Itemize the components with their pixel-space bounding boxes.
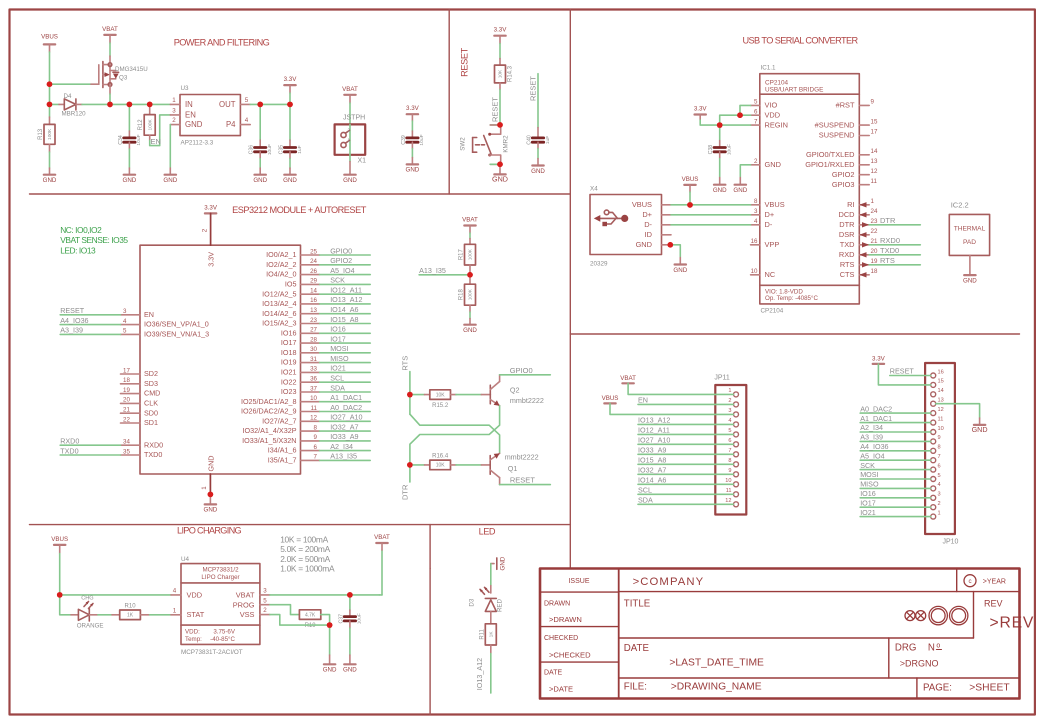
section divider vertical center — [569, 10, 571, 569]
svg-text:14: 14 — [310, 288, 317, 295]
svg-text:4: 4 — [754, 218, 758, 225]
svg-text:VBUS: VBUS — [602, 395, 619, 402]
wire JP10 pin15 — [878, 364, 930, 385]
svg-text:5.0K = 200mA: 5.0K = 200mA — [280, 544, 330, 554]
wire gate to VBUS — [50, 83, 92, 85]
IC U4 MCP73831 — [181, 556, 260, 656]
svg-text:TXD0: TXD0 — [880, 246, 899, 255]
svg-text:MOSI: MOSI — [330, 344, 348, 353]
connector JP10 — [925, 363, 958, 546]
svg-text:10K: 10K — [436, 392, 446, 398]
wire net IO32_A7 — [320, 422, 371, 431]
svg-text:4: 4 — [728, 418, 731, 424]
pin ESP.33 IO21 — [281, 366, 320, 377]
svg-text:GPIO0/TXLED: GPIO0/TXLED — [806, 150, 854, 159]
svg-text:EN: EN — [151, 137, 161, 146]
ground IC2.2 — [963, 275, 977, 284]
capacitor C40 — [526, 135, 550, 145]
svg-text:o: o — [936, 643, 940, 650]
wire net IO12_A11 — [320, 286, 371, 295]
svg-text:1: 1 — [728, 388, 731, 394]
svg-text:GPIO2: GPIO2 — [330, 256, 352, 265]
svg-text:DCD: DCD — [838, 210, 854, 219]
svg-text:RESET: RESET — [460, 47, 470, 76]
wire EN net loop — [150, 115, 171, 146]
svg-text:3: 3 — [263, 588, 267, 595]
svg-text:RESET: RESET — [529, 76, 538, 101]
wire net RESET — [60, 306, 120, 315]
pin JP10.16 — [931, 369, 944, 378]
svg-text:A4_IO36: A4_IO36 — [860, 442, 888, 451]
svg-text:A1_DAC1: A1_DAC1 — [330, 393, 362, 402]
svg-text:IO21: IO21 — [860, 508, 876, 517]
pin ESP.37 IO23 — [281, 385, 320, 396]
power 3.3V CP2104 — [694, 106, 708, 115]
node VSS junction — [327, 622, 333, 628]
pin JP10.2 — [931, 501, 941, 510]
capacitor C34 — [118, 134, 142, 145]
svg-text:P4: P4 — [226, 120, 236, 129]
svg-text:JSTPH: JSTPH — [343, 115, 365, 122]
svg-text:2: 2 — [263, 607, 267, 614]
svg-text:12: 12 — [871, 168, 878, 175]
pin ESP.12 IO27/A2_7 — [262, 415, 319, 426]
connector X4 USB — [590, 185, 662, 267]
svg-text:35: 35 — [123, 448, 130, 455]
svg-text:C36: C36 — [249, 145, 255, 155]
node REGIN junction — [717, 122, 723, 128]
svg-text:CLK: CLK — [144, 399, 158, 408]
svg-text:2: 2 — [172, 117, 176, 124]
svg-text:I35/A1_7: I35/A1_7 — [268, 456, 297, 465]
svg-text:3.3V: 3.3V — [204, 204, 218, 211]
svg-text:36: 36 — [310, 376, 317, 383]
svg-text:ESP3212 MODULE + AUTORESET: ESP3212 MODULE + AUTORESET — [232, 205, 367, 215]
svg-text:GPIO3: GPIO3 — [832, 180, 855, 189]
svg-text:GND: GND — [733, 187, 747, 194]
pin JP11.12 — [725, 498, 738, 507]
resistor R13 — [38, 124, 55, 144]
svg-text:6: 6 — [754, 108, 758, 115]
svg-text:IO23: IO23 — [281, 387, 297, 396]
pin JP10.13 — [931, 398, 944, 407]
svg-text:10: 10 — [938, 426, 944, 432]
wire net IO13_A12 — [320, 295, 371, 304]
pin JP10.7 — [931, 454, 941, 463]
note resistor values — [280, 534, 335, 573]
svg-text:GND: GND — [765, 160, 781, 169]
svg-text:GND: GND — [492, 175, 508, 184]
svg-text:Q3: Q3 — [119, 75, 128, 82]
capacitor C35 — [278, 145, 302, 155]
section divider vertical power/reset — [448, 10, 450, 195]
wire net DTR (CP2104) — [869, 216, 920, 225]
power VBUS X4 — [682, 176, 699, 185]
svg-text:EN: EN — [638, 396, 648, 405]
capacitor C36 — [249, 144, 273, 155]
svg-text:RI: RI — [847, 200, 854, 209]
svg-text:SD3: SD3 — [144, 379, 158, 388]
svg-text:8: 8 — [754, 198, 758, 205]
svg-text:7: 7 — [754, 118, 758, 125]
svg-text:MCP73831/2: MCP73831/2 — [202, 566, 239, 573]
svg-text:IO26/DAC2/A2_9: IO26/DAC2/A2_9 — [241, 407, 297, 416]
svg-text:27: 27 — [310, 327, 317, 334]
svg-text:D-: D- — [765, 220, 773, 229]
wire VBUS row — [671, 204, 751, 206]
svg-text:GND: GND — [283, 177, 297, 184]
pin IC1.13 GPIO1/RXLED — [805, 158, 878, 169]
svg-text:C40: C40 — [526, 135, 532, 145]
svg-text:IO27_A10: IO27_A10 — [330, 413, 362, 422]
pin ESP.23 IO15/A2_3 — [262, 317, 319, 328]
svg-text:THERMAL: THERMAL — [954, 225, 986, 232]
pin IC1.7 REGIN — [751, 118, 788, 129]
capacitor C39 — [401, 134, 425, 145]
svg-text:A4_IO36: A4_IO36 — [60, 316, 88, 325]
svg-text:5: 5 — [263, 597, 267, 604]
pin ESP.2 top — [210, 213, 212, 245]
svg-text:N: N — [928, 643, 935, 654]
wire net A4_IO36 — [60, 316, 120, 325]
transistor Q2 mmbt2222 — [490, 375, 544, 406]
capacitor C38 — [719, 125, 721, 140]
svg-text:6: 6 — [938, 463, 941, 469]
svg-text:GPIO2: GPIO2 — [832, 170, 855, 179]
wire 3.3V to REGIN — [699, 115, 701, 121]
svg-text:IC2.2: IC2.2 — [951, 201, 969, 210]
wire D- row — [671, 224, 751, 226]
svg-text:10uF: 10uF — [136, 134, 142, 145]
wire net A4_IO36 (JP10) — [860, 442, 931, 451]
svg-text:R13: R13 — [38, 128, 44, 140]
pin JP11.5 — [728, 428, 738, 437]
wire net IO33_A9 — [320, 432, 371, 441]
wire net IO33_A9 (JP11) — [638, 446, 733, 455]
svg-text:ISSUE: ISSUE — [568, 578, 589, 585]
svg-text:VPP: VPP — [765, 240, 780, 249]
op-amp U3 AP2112-3.3 regulator — [180, 85, 240, 147]
wire VIO/VDD chain — [720, 105, 751, 125]
svg-text:4.7K: 4.7K — [305, 612, 316, 618]
svg-text:10uF: 10uF — [357, 613, 363, 624]
wire U3 GND pin down — [169, 125, 171, 168]
pin ESP.9 IO33/A1_5/X32N — [242, 434, 319, 445]
title block — [540, 569, 1020, 699]
wire net SCK — [320, 276, 371, 285]
switch SW2 KMR2 — [460, 125, 510, 164]
pin IC1.4 D- — [751, 218, 773, 229]
wire X4 GND — [668, 242, 674, 248]
svg-text:SD0: SD0 — [144, 408, 158, 417]
svg-text:DRAWN: DRAWN — [544, 600, 570, 607]
svg-text:D+: D+ — [765, 210, 775, 219]
svg-text:100K: 100K — [468, 248, 474, 260]
svg-text:GND: GND — [963, 277, 977, 284]
svg-text:RESET: RESET — [491, 97, 500, 122]
resistor R19 — [299, 610, 320, 629]
svg-text:16: 16 — [751, 238, 758, 245]
svg-text:SW2: SW2 — [460, 137, 467, 151]
svg-text:C38: C38 — [708, 145, 714, 155]
pin X4 GND — [662, 244, 670, 246]
svg-text:3.3V: 3.3V — [494, 27, 508, 34]
svg-text:>SHEET: >SHEET — [969, 683, 1010, 694]
svg-text:A1_DAC1: A1_DAC1 — [860, 414, 892, 423]
wire net GPIO0 — [500, 366, 551, 375]
section divider horizontal right — [570, 333, 1019, 335]
svg-text:GND: GND — [43, 177, 57, 184]
svg-text:6: 6 — [728, 438, 731, 444]
svg-text:c: c — [968, 578, 971, 585]
svg-text:28: 28 — [310, 336, 317, 343]
wire D+ row — [671, 214, 751, 216]
svg-text:8: 8 — [938, 445, 941, 451]
pin ESP.8 IO32/A1_4/X32P — [243, 424, 320, 435]
wire net SCL — [320, 374, 371, 383]
svg-text:IO33_A9: IO33_A9 — [330, 432, 358, 441]
pin JP10.14 — [931, 388, 944, 397]
svg-text:33: 33 — [310, 366, 317, 373]
wire RESET to C40 — [537, 74, 539, 128]
wire net IO15_A8 — [320, 315, 371, 324]
svg-text:3.3V: 3.3V — [694, 106, 708, 113]
svg-text:C37: C37 — [338, 614, 344, 624]
svg-text:CTS: CTS — [840, 270, 855, 279]
section divider vertical led/titleblock — [429, 569, 431, 715]
svg-text:2: 2 — [202, 228, 209, 232]
wire VSS down — [270, 615, 330, 626]
wire LED top — [491, 563, 494, 565]
svg-text:GND: GND — [323, 667, 337, 674]
svg-text:VBAT: VBAT — [620, 375, 636, 382]
svg-text:DTR: DTR — [880, 216, 896, 225]
svg-text:DTR: DTR — [839, 220, 854, 229]
pin ESP.7 I35/A1_7 — [268, 454, 320, 465]
svg-text:2: 2 — [348, 128, 351, 133]
svg-text:2: 2 — [938, 501, 941, 507]
svg-text:PROG: PROG — [233, 600, 255, 609]
svg-text:VBAT: VBAT — [374, 534, 390, 541]
capacitor C38 — [708, 144, 732, 155]
svg-text:10K: 10K — [436, 463, 446, 469]
svg-text:R10: R10 — [125, 604, 137, 610]
pin IC1.1 RI — [847, 198, 874, 209]
svg-text:MOSI: MOSI — [860, 470, 878, 479]
svg-text:JP11: JP11 — [714, 375, 730, 382]
wire net RXD0 (CP2104) — [869, 236, 920, 245]
svg-text:IO13_A12: IO13_A12 — [475, 658, 484, 690]
svg-text:>COMPANY: >COMPANY — [633, 576, 705, 588]
svg-text:RESET: RESET — [510, 476, 535, 485]
ground C37 — [343, 664, 357, 673]
svg-text:CHG: CHG — [81, 596, 93, 602]
pin ESP.20 CLK — [121, 397, 159, 408]
DATE row — [624, 643, 764, 668]
wire VBUS vertical — [49, 44, 51, 52]
svg-text:14: 14 — [871, 148, 878, 155]
pin JP11.10 — [725, 478, 738, 487]
svg-text:IO12_A11: IO12_A11 — [330, 286, 362, 295]
svg-text:MBR120: MBR120 — [62, 111, 87, 118]
module U5 ESP3212 box — [140, 245, 301, 474]
pin U4.4 — [171, 594, 181, 596]
DRG cell — [895, 643, 942, 669]
pin U4.2 — [260, 614, 270, 616]
svg-text:IO2/A2_2: IO2/A2_2 — [266, 260, 296, 269]
pin IC1.16 VPP — [751, 238, 780, 249]
power VBAT R17 — [462, 217, 478, 226]
pin IC1.2 GND — [751, 158, 781, 169]
svg-text:4: 4 — [123, 318, 127, 325]
pin ESP.4 IO36/SEN_VP/A1_0 — [121, 318, 209, 329]
icon USB trident — [594, 210, 629, 226]
node C36 junction — [257, 102, 263, 108]
svg-text:-40-85°C: -40-85°C — [210, 636, 235, 643]
svg-text:VSS: VSS — [240, 610, 255, 619]
pin ESP.1 bottom — [209, 474, 211, 494]
svg-text:CHECKED: CHECKED — [544, 635, 578, 642]
svg-text:R14.3: R14.3 — [508, 65, 514, 82]
svg-text:2.0K = 500mA: 2.0K = 500mA — [280, 554, 330, 564]
pin IC1.20 RXD — [839, 248, 878, 259]
svg-text:IO14_A6: IO14_A6 — [330, 305, 358, 314]
svg-text:C34: C34 — [118, 135, 124, 145]
pin U3.2 — [170, 124, 180, 126]
svg-text:34: 34 — [123, 439, 130, 446]
svg-text:23: 23 — [871, 218, 878, 225]
section divider horizontal left top — [30, 193, 571, 195]
pin JP11.11 — [726, 488, 739, 497]
svg-text:SD1: SD1 — [144, 418, 158, 427]
pin ESP.19 CMD — [121, 387, 161, 398]
svg-text:A0_DAC2: A0_DAC2 — [330, 403, 362, 412]
svg-text:VIO: VIO — [765, 101, 778, 110]
pin ESP.16 IO13/A2_4 — [262, 297, 319, 308]
svg-text:GND: GND — [207, 456, 216, 472]
wire net A5_IO4 (JP10) — [860, 451, 931, 460]
pin ESP.17 SD2 — [121, 367, 158, 378]
svg-text:1: 1 — [938, 510, 941, 516]
pin IC1.8 VBUS — [751, 198, 785, 209]
wire PROG to R19 — [270, 605, 300, 615]
pin JP11.6 — [728, 438, 738, 447]
wire net A13_I35 — [320, 452, 371, 461]
svg-text:RTS: RTS — [880, 256, 895, 265]
pin IC1.23 DTR — [839, 218, 878, 229]
node C37 junction — [347, 592, 353, 598]
svg-text:24: 24 — [871, 208, 878, 215]
svg-text:Temp:: Temp: — [185, 636, 202, 643]
svg-text:7: 7 — [938, 454, 941, 460]
node switch top junction — [497, 122, 503, 128]
IC IC2.2 thermal pad — [949, 201, 989, 256]
svg-text:5: 5 — [123, 328, 127, 335]
wire net TXD0 (CP2104) — [869, 246, 920, 255]
pin ESP.29 IO5 — [285, 278, 320, 289]
svg-text:100K: 100K — [47, 128, 53, 140]
power VBAT X1 — [342, 86, 358, 95]
power 3.3V U3 — [284, 76, 298, 85]
svg-text:PAD: PAD — [963, 239, 976, 246]
node RTS junction — [407, 392, 413, 398]
capacitor C34 — [128, 104, 130, 131]
svg-text:IO15/A2_3: IO15/A2_3 — [262, 319, 296, 328]
svg-text:10: 10 — [725, 478, 731, 484]
svg-text:R11: R11 — [479, 628, 485, 639]
svg-text:IO36/SEN_VP/A1_0: IO36/SEN_VP/A1_0 — [144, 320, 209, 329]
svg-text:JP10: JP10 — [943, 539, 959, 546]
svg-text:2: 2 — [728, 398, 731, 404]
svg-text:MCP73831T-2ACI/OT: MCP73831T-2ACI/OT — [181, 649, 243, 656]
node VBUS/diode junction — [47, 102, 53, 108]
svg-text:D-: D- — [644, 220, 652, 229]
pin JP10.12 — [931, 407, 944, 416]
wire net IO15_A8 (JP11) — [638, 456, 733, 465]
svg-text:GND: GND — [673, 267, 687, 274]
svg-text:EN: EN — [144, 310, 154, 319]
svg-text:IO17: IO17 — [330, 334, 346, 343]
resistor R12 — [149, 104, 151, 114]
ground ESP — [204, 504, 218, 513]
ground C36 — [253, 175, 267, 184]
wire net IO32_A7 (JP11) — [638, 466, 733, 475]
wire net A1_DAC1 — [320, 393, 371, 402]
pin IC1.22 DSR — [839, 228, 878, 239]
svg-text:DTR: DTR — [400, 484, 409, 500]
pin IC1.3 D+ — [751, 208, 775, 219]
svg-text:1K: 1K — [127, 613, 134, 619]
svg-text:>CHECKED: >CHECKED — [549, 651, 591, 660]
svg-text:RESET: RESET — [890, 367, 915, 376]
svg-text:GND: GND — [463, 327, 477, 334]
pin U3.4 — [240, 124, 250, 126]
svg-text:GND: GND — [123, 177, 137, 184]
wire net A1_DAC1 (JP10) — [860, 414, 931, 423]
svg-text:GND: GND — [163, 177, 177, 184]
capacitor C35 — [289, 104, 291, 140]
svg-text:15: 15 — [938, 379, 944, 385]
svg-text:IO27/A2_7: IO27/A2_7 — [262, 416, 296, 425]
resistor R17 — [459, 244, 476, 265]
wire CP2104 GND pin — [740, 165, 750, 178]
svg-text:20: 20 — [871, 248, 878, 255]
svg-text:SUSPEND: SUSPEND — [819, 131, 855, 140]
pin ESP.35 TXD0 — [121, 448, 163, 459]
svg-text:IO5: IO5 — [285, 280, 297, 289]
resistor R11 — [490, 611, 492, 623]
resistor R18 — [469, 275, 471, 284]
svg-text:IO33_A9: IO33_A9 — [638, 446, 666, 455]
svg-text:D3: D3 — [469, 598, 476, 606]
wire VBAT up — [379, 594, 382, 596]
svg-text:R15.2: R15.2 — [432, 403, 449, 409]
svg-text:>DATE: >DATE — [549, 685, 573, 694]
svg-text:19: 19 — [871, 258, 878, 265]
resistor R18 — [459, 284, 476, 305]
svg-text:3: 3 — [123, 308, 127, 315]
pin U3.3 — [170, 114, 180, 116]
svg-text:GND: GND — [204, 507, 218, 514]
ground SW2 — [492, 174, 508, 183]
svg-text:IO13_A12: IO13_A12 — [330, 295, 362, 304]
ground C34 — [123, 175, 137, 184]
svg-text:mmbt2222: mmbt2222 — [505, 453, 539, 462]
wire net IO14_A6 (JP11) — [638, 476, 733, 485]
ground R13 — [43, 175, 57, 184]
wire net GPIO2 — [320, 256, 371, 265]
wire VBUS down to LED — [60, 595, 71, 615]
